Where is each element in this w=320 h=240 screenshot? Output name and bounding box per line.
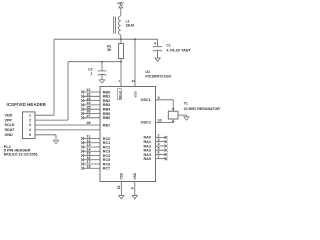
svg-text:RA5: RA5: [144, 157, 151, 161]
svg-text:RB6: RB6: [103, 116, 110, 120]
svg-text:VDD: VDD: [133, 90, 137, 97]
wire inductor to +5V rail: [120, 35, 122, 39]
connector PL2 header box: [23, 112, 36, 139]
pin numbers 2-7: [158, 134, 161, 159]
pin labels RA0-RA5: [144, 136, 152, 161]
wire header pin5 GND drop: [35, 135, 56, 140]
svg-text:20: 20: [132, 79, 136, 83]
wire SDAT to chip: [35, 129, 100, 131]
svg-text:9: 9: [158, 96, 160, 100]
inductor L1: [114, 16, 135, 35]
wire header pin1 VDD riser: [35, 39, 54, 115]
capacitor C2: [88, 62, 106, 80]
resonator Y1: [168, 101, 220, 119]
svg-text:MOLEX 22-23-2051: MOLEX 22-23-2051: [4, 152, 38, 156]
MCLR active-low box label: [118, 89, 123, 100]
wire MCLR node to pin 1: [120, 62, 122, 87]
svg-text:28: 28: [87, 121, 91, 125]
OSC2 pin 10 wire: [141, 119, 175, 125]
svg-text:19: 19: [117, 185, 121, 189]
pin numbers 21-26: [87, 88, 92, 118]
svg-text:2: 2: [29, 118, 31, 122]
svg-text:8: 8: [130, 187, 134, 189]
svg-text:RB7: RB7: [103, 123, 110, 127]
svg-text:5: 5: [29, 133, 31, 137]
ground at pin 19: [119, 196, 124, 199]
svg-text:4: 4: [29, 128, 31, 132]
svg-text:GND: GND: [5, 133, 14, 137]
no-connect X marks RB0-RB5: [81, 90, 84, 119]
svg-text:SCLK: SCLK: [5, 123, 15, 127]
ground below C1: [155, 58, 160, 61]
svg-text:C1: C1: [166, 43, 170, 47]
svg-text:1: 1: [29, 113, 31, 117]
svg-text:MCLR: MCLR: [118, 90, 122, 99]
resistor R1: [107, 44, 123, 59]
ground at header: [53, 140, 58, 143]
pin numbers 11-18: [87, 135, 92, 169]
wire R1 to MCLR node: [120, 59, 122, 62]
OSC1 pin 9 wire: [141, 96, 175, 111]
svg-text:33UH: 33UH: [126, 24, 135, 28]
svg-text:SDAT: SDAT: [5, 128, 16, 132]
svg-text:VPP: VPP: [5, 118, 13, 122]
wire SCLK to RB7 pin 28: [35, 124, 100, 126]
node junction MCLR: [120, 61, 122, 63]
left pins RC0-RC7 no-connect stubs: [83, 139, 101, 169]
resonator ground lead: [178, 114, 187, 116]
node junction C2 tap: [101, 61, 103, 63]
IC U1 PIC16F872: [100, 70, 172, 181]
power +5V: [117, 2, 124, 16]
svg-text:18: 18: [87, 164, 91, 168]
pin labels RB0-RB7: [103, 90, 111, 127]
svg-text:1: 1: [118, 79, 120, 83]
svg-text:4.7/6.3V TANT: 4.7/6.3V TANT: [166, 49, 191, 53]
wire rail to R1: [120, 39, 122, 43]
ground at resonator: [184, 117, 189, 120]
svg-text:RC7: RC7: [103, 167, 110, 171]
ground below C2: [99, 80, 104, 83]
header part labels: [4, 145, 38, 156]
svg-text:ICSP/VID HEADER: ICSP/VID HEADER: [7, 102, 47, 107]
capacitor C1: [153, 39, 191, 58]
svg-text:OSC2: OSC2: [141, 121, 151, 125]
VSS pin 19 wire: [120, 182, 122, 196]
left pins RB0-RB5 no-connect stubs: [83, 92, 101, 118]
node junction VDD pin rail: [134, 38, 136, 40]
svg-text:27: 27: [87, 114, 91, 118]
svg-text:10 MHZ RESONATOR: 10 MHZ RESONATOR: [184, 107, 221, 111]
svg-text:OSC1: OSC1: [141, 98, 151, 102]
svg-text:5K: 5K: [107, 48, 112, 52]
right pins RA0-RA5 no-connect stubs: [156, 137, 167, 158]
node junction L1/rail: [120, 38, 122, 40]
svg-text:7: 7: [158, 155, 160, 159]
no-connect X marks RC0-RC7: [81, 137, 84, 170]
ground at pin 8: [132, 196, 137, 199]
svg-text:VSS: VSS: [120, 172, 124, 179]
svg-text:VSS: VSS: [133, 172, 137, 179]
svg-text:3: 3: [29, 123, 31, 127]
wire header pin2 VPP riser: [35, 62, 68, 120]
wire +5V rail: [54, 38, 158, 40]
svg-text:Y1: Y1: [184, 101, 188, 105]
VSS pin 8 wire: [134, 182, 136, 196]
no-connect X marks RA0-RA5: [164, 136, 167, 160]
svg-text:VDD: VDD: [5, 113, 13, 117]
wire VDD rail to pin 20: [134, 39, 136, 86]
svg-text:.1: .1: [90, 72, 93, 76]
wire VPP/MCLR line: [68, 61, 121, 63]
svg-text:PIC16F872-I/SO: PIC16F872-I/SO: [145, 74, 171, 78]
pin labels RC0-RC7: [103, 137, 111, 171]
svg-text:10: 10: [158, 119, 162, 123]
